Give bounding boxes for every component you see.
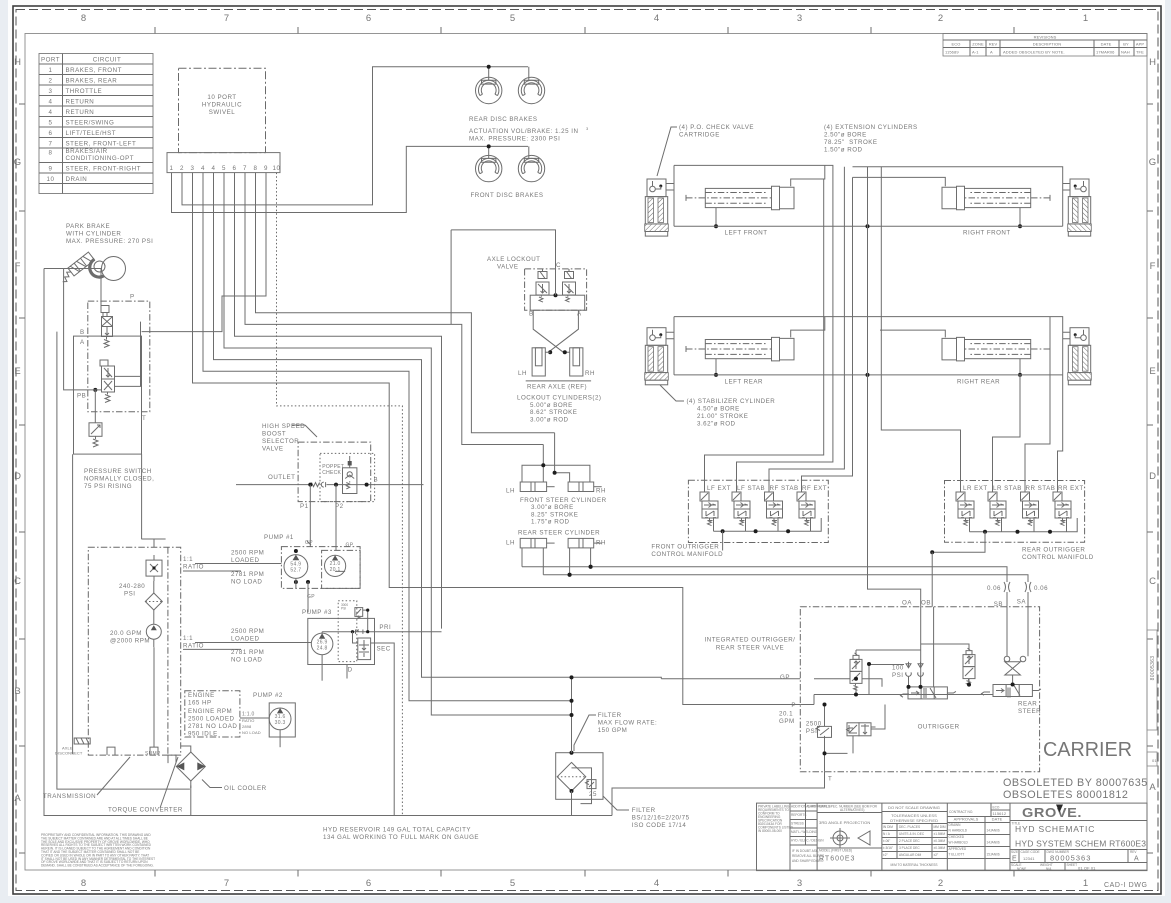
svg-text:ZONE: ZONE: [972, 42, 984, 47]
svg-text:±0.3MM: ±0.3MM: [934, 839, 946, 843]
svg-text:OIL COOLER: OIL COOLER: [224, 785, 267, 792]
svg-text:OUTLET: OUTLET: [268, 474, 295, 481]
svg-text:DEMAND. SHALL BE CONSTRUED AS: DEMAND. SHALL BE CONSTRUED AS ACCEPTANCE…: [41, 864, 154, 868]
svg-text:P1: P1: [300, 503, 309, 510]
svg-text:3: 3: [49, 88, 53, 95]
svg-text:17MAR06: 17MAR06: [1096, 50, 1115, 55]
svg-text:1:1: 1:1: [183, 635, 193, 642]
svg-text:4: 4: [654, 878, 660, 889]
svg-text:ISO CODE 17/14: ISO CODE 17/14: [632, 822, 687, 829]
contract / eco / approvals column: [947, 803, 1010, 871]
svg-text:80005363: 80005363: [1050, 854, 1091, 863]
SA long wire: [543, 575, 1028, 581]
svg-text:±2°: ±2°: [883, 853, 889, 857]
svg-text:C: C: [556, 262, 561, 269]
integrated outrigger / rear steer valve box: [705, 599, 1040, 783]
rear steer cylinder: [506, 530, 606, 577]
svg-text:PB: PB: [77, 393, 86, 400]
svg-text:DESCRIPTION: DESCRIPTION: [1033, 42, 1061, 47]
svg-text:RETURN: RETURN: [66, 99, 95, 106]
(4) po check valve cartridge label: [657, 124, 754, 176]
svg-text:LF EXT: LF EXT: [707, 485, 731, 492]
front disc brakes: [471, 146, 545, 199]
svg-text:REPORTS: REPORTS: [791, 813, 806, 817]
svg-text:SA: SA: [1017, 599, 1027, 606]
svg-text:GP: GP: [780, 674, 790, 681]
svg-text:BS/12/16=2/20/75: BS/12/16=2/20/75: [632, 815, 690, 822]
svg-text:1: 1: [49, 67, 53, 74]
transmission check valve: [146, 555, 162, 581]
svg-text:CARRIER: CARRIER: [1043, 739, 1132, 761]
LF STAB valve: [732, 492, 750, 526]
svg-text:SB: SB: [994, 601, 1003, 608]
grove logo cell: [1010, 805, 1147, 821]
svg-text:ALTERNATIVES): ALTERNATIVES): [840, 808, 865, 812]
svg-text:DATE: DATE: [808, 805, 816, 809]
svg-text:7: 7: [243, 165, 247, 172]
svg-text:G: G: [1149, 157, 1157, 168]
svg-text:0.06: 0.06: [1034, 585, 1048, 592]
title cell: [1012, 822, 1147, 849]
inline check symbol: [312, 482, 326, 487]
svg-text:LEFT FRONT: LEFT FRONT: [725, 230, 768, 237]
svg-text:AXLE LOCKOUT: AXLE LOCKOUT: [487, 256, 540, 263]
svg-text:M/M TO MATERIAL THICKNESS: M/M TO MATERIAL THICKNESS: [891, 863, 938, 867]
svg-text:REAR OUTRIGGER: REAR OUTRIGGER: [1022, 547, 1085, 554]
svg-text:25: 25: [589, 791, 597, 798]
svg-text:H: H: [1149, 57, 1157, 68]
rear disc brakes: [469, 67, 589, 143]
svg-text:NONE: NONE: [1017, 867, 1026, 871]
wire to LR EXT: [881, 167, 960, 492]
svg-text:±2°: ±2°: [934, 853, 940, 857]
valve internal: 2500 psi relief: [816, 726, 832, 738]
svg-text:LH: LH: [506, 540, 515, 547]
pressure switch symbol: [89, 423, 102, 447]
svg-text:SIZE: SIZE: [1011, 850, 1018, 854]
svg-text:6: 6: [366, 13, 372, 24]
material spec column: [817, 805, 882, 863]
left front stabilizer + cartridge: [645, 179, 669, 236]
manifold feed columns: [705, 167, 1063, 607]
svg-text:GPM: GPM: [779, 718, 795, 725]
svg-text:REAR: REAR: [1018, 701, 1037, 708]
svg-text:LOADED: LOADED: [231, 557, 259, 564]
valve internal: rear steer 4-way valve: [982, 685, 1042, 716]
svg-text:RR STAB: RR STAB: [1026, 485, 1056, 492]
svg-text:4: 4: [201, 165, 205, 172]
svg-text:BOOST: BOOST: [262, 431, 286, 438]
svg-text:RATIO: RATIO: [183, 564, 204, 571]
size cage dwg rev row: [1010, 850, 1147, 863]
lockout valve feed wire: [451, 230, 555, 325]
right front extension cylinder: [942, 186, 1050, 210]
svg-text:RETURN: RETURN: [66, 109, 95, 116]
svg-text:TORQUE CONVERTER: TORQUE CONVERTER: [108, 807, 183, 814]
SB long wire: [522, 567, 1007, 581]
svg-text:WITH CYLINDER: WITH CYLINDER: [66, 231, 121, 238]
svg-text:LOCKOUT CYLINDERS(2): LOCKOUT CYLINDERS(2): [517, 395, 602, 402]
svg-text:REVISIONS: REVISIONS: [1034, 35, 1057, 40]
svg-text:FRONT STEER CYLINDER: FRONT STEER CYLINDER: [520, 497, 607, 504]
svg-text:CIRCUIT: CIRCUIT: [93, 57, 122, 64]
wire to LF EXT: [705, 179, 824, 492]
engine box: [185, 691, 269, 738]
svg-text:CARTRIDGE: CARTRIDGE: [679, 132, 720, 139]
svg-text:E: E: [1012, 856, 1017, 863]
svg-text:950 IDLE: 950 IDLE: [188, 730, 218, 737]
svg-text:5: 5: [49, 120, 53, 127]
wire to RF STAB: [769, 167, 844, 492]
wire to RR EXT: [1058, 375, 1063, 492]
park brake cylinder: [58, 252, 125, 284]
svg-text:7: 7: [224, 13, 230, 24]
valve internal: unload valve pair: [847, 723, 876, 736]
svg-text:A: A: [1149, 782, 1156, 793]
svg-text:0.06: 0.06: [987, 585, 1001, 592]
svg-text:B: B: [80, 329, 85, 336]
svg-text:1:1: 1:1: [183, 556, 193, 563]
svg-text:9: 9: [264, 165, 268, 172]
svg-text:CAGE CODE: CAGE CODE: [1021, 850, 1040, 854]
svg-text:GP: GP: [346, 543, 354, 549]
svg-text:PSI: PSI: [806, 728, 817, 735]
right rear circuit wires: [880, 330, 1070, 375]
pump 2: [253, 692, 295, 747]
svg-text:ENGINE RPM: ENGINE RPM: [188, 708, 232, 715]
svg-text:REAR STEER VALVE: REAR STEER VALVE: [716, 645, 784, 652]
front steer cylinder: [506, 433, 607, 526]
svg-text:@2000 RPM: @2000 RPM: [110, 638, 150, 645]
svg-text:3RD ANGLE PROJECTION: 3RD ANGLE PROJECTION: [819, 820, 870, 825]
svg-text:E: E: [14, 366, 21, 377]
wire port2 to rear brakes: [182, 67, 528, 205]
oil cooler: [176, 746, 266, 792]
svg-text:LR EXT: LR EXT: [963, 485, 988, 492]
svg-text:ACTUATION VOL/BRAKE: 1.25 IN: ACTUATION VOL/BRAKE: 1.25 IN: [469, 128, 578, 135]
svg-text:FILTER: FILTER: [598, 712, 622, 719]
svg-text:2: 2: [938, 878, 944, 889]
svg-text:4: 4: [212, 165, 216, 172]
svg-text:PUMP #3: PUMP #3: [302, 609, 332, 616]
svg-text:P: P: [130, 294, 135, 301]
lockout solenoid valve right: [563, 269, 576, 302]
proprietary note block: [41, 833, 155, 868]
svg-text:LOADED: LOADED: [231, 636, 259, 643]
svg-text:DO NOT SCALE DRAWING: DO NOT SCALE DRAWING: [888, 805, 940, 810]
svg-text:DISCONNECT: DISCONNECT: [55, 751, 83, 756]
svg-text:N / A: N / A: [883, 832, 891, 836]
drain dotted wire port10: [277, 173, 403, 816]
svg-text:6: 6: [233, 165, 237, 172]
RF STAB valve: [765, 492, 783, 526]
svg-text:LF STAB: LF STAB: [737, 485, 765, 492]
svg-text:BRAKES, REAR: BRAKES, REAR: [66, 78, 118, 85]
svg-text:VALVE: VALVE: [262, 446, 284, 453]
svg-text:THROTTLE: THROTTLE: [66, 88, 103, 95]
svg-text:4: 4: [654, 13, 660, 24]
title block frame: [757, 803, 1148, 871]
orifice SA: [1025, 581, 1048, 607]
svg-text:NO LOAD: NO LOAD: [231, 657, 262, 664]
svg-text:RT600E3: RT600E3: [819, 856, 855, 863]
svg-text:F: F: [1150, 261, 1157, 272]
svg-text:4: 4: [49, 99, 53, 106]
svg-text:30.3: 30.3: [275, 720, 286, 726]
svg-text:3 PLACE DEC: 3 PLACE DEC: [899, 846, 920, 850]
svg-text:RIGHT FRONT: RIGHT FRONT: [963, 230, 1011, 237]
svg-text:T: T: [142, 415, 146, 422]
svg-text:E: E: [1149, 366, 1156, 377]
svg-text:CHECKED: CHECKED: [949, 835, 965, 839]
svg-text:APPROVED: APPROVED: [949, 847, 967, 851]
svg-text:REAR AXLE (REF): REAR AXLE (REF): [527, 383, 587, 390]
pump 1: [264, 534, 360, 612]
svg-text:20.0 GPM: 20.0 GPM: [110, 630, 142, 637]
svg-text:B: B: [374, 477, 379, 484]
valve internal: right pilot solenoid valve: [963, 648, 975, 685]
private labelling tiny text: [758, 805, 794, 834]
svg-text:D: D: [348, 667, 353, 674]
svg-text:IN DIM: IN DIM: [883, 825, 893, 829]
pump 3: [302, 601, 442, 816]
additional approvals column: [790, 803, 830, 863]
svg-text:FILTER: FILTER: [632, 807, 656, 814]
svg-text:MAX. PRESSURE: 2300 PSI: MAX. PRESSURE: 2300 PSI: [469, 136, 560, 143]
lockout solenoid valve left: [536, 269, 549, 302]
svg-text:01: 01: [1152, 758, 1157, 763]
svg-text:CAD-I DWG: CAD-I DWG: [1104, 882, 1148, 889]
svg-text:RH: RH: [585, 370, 595, 377]
svg-text:LIFT/TELE/HST: LIFT/TELE/HST: [66, 130, 117, 137]
svg-text:1.50"ø ROD: 1.50"ø ROD: [824, 147, 863, 154]
front steer wires: [543, 433, 554, 473]
svg-text:OUTRIGGER: OUTRIGGER: [918, 724, 960, 731]
svg-text:B: B: [14, 686, 21, 697]
svg-text:3: 3: [797, 13, 803, 24]
svg-text:4.50"ø BORE: 4.50"ø BORE: [697, 406, 740, 413]
svg-text:1: 1: [1083, 878, 1089, 889]
svg-text:14JAN06: 14JAN06: [987, 841, 1000, 845]
front manifold common wires: [714, 518, 822, 531]
svg-text:PORT: PORT: [41, 57, 60, 64]
svg-text:A-1: A-1: [972, 50, 979, 55]
svg-text:APP: APP: [1136, 42, 1145, 47]
svg-text:C: C: [14, 576, 22, 587]
left rear circuit wires: [666, 317, 825, 375]
10 port hydraulic swivel: [167, 68, 280, 172]
svg-text:(4) EXTENSION CYLINDERS: (4) EXTENSION CYLINDERS: [824, 124, 918, 131]
svg-text:C: C: [1149, 576, 1157, 587]
svg-text:GROVE.: GROVE.: [1022, 805, 1082, 820]
axle disconnect: [55, 738, 90, 756]
svg-text:APPROVALS: APPROVALS: [954, 817, 979, 822]
svg-text:±0.3MM: ±0.3MM: [934, 846, 946, 850]
svg-text:5: 5: [222, 165, 226, 172]
svg-text:D: D: [1149, 471, 1157, 482]
front outrigger control manifold box: [688, 480, 828, 542]
transmission pump circle: [146, 624, 161, 647]
right rear stabilizer + cartridge: [1068, 328, 1092, 385]
svg-text:OBSOLETES 80001812: OBSOLETES 80001812: [1003, 789, 1128, 801]
svg-text:OBSOLETED BY 80007635: OBSOLETED BY 80007635: [1003, 777, 1148, 789]
svg-text:DATE: DATE: [1101, 42, 1112, 47]
svg-text:HIGH SPEED: HIGH SPEED: [262, 423, 305, 430]
svg-text:4: 4: [49, 109, 53, 116]
svg-text:DEC. PLACES: DEC. PLACES: [899, 825, 920, 829]
sump outline: [107, 747, 176, 763]
svg-text:GP: GP: [305, 540, 313, 546]
wire to RR STAB: [1025, 317, 1050, 492]
svg-text:6: 6: [366, 878, 372, 889]
svg-text:20.1: 20.1: [779, 711, 793, 718]
svg-text:3.00"ø BORE: 3.00"ø BORE: [531, 504, 574, 511]
rear outrigger control manifold box: [945, 481, 1085, 543]
svg-text:2500 RPM: 2500 RPM: [231, 550, 264, 557]
svg-text:PUMP #1: PUMP #1: [264, 534, 294, 541]
valve internal wires: [800, 607, 1014, 772]
svg-text:STEER, FRONT-LEFT: STEER, FRONT-LEFT: [66, 141, 137, 148]
svg-text:RF EXT: RF EXT: [802, 485, 827, 492]
svg-text:1:1.0: 1:1.0: [242, 712, 255, 718]
svg-text:FRONT OUTRIGGER: FRONT OUTRIGGER: [651, 544, 719, 551]
rear manifold exit wire: [932, 532, 985, 553]
right rear extension cylinder: [942, 337, 1050, 361]
svg-text:SUMP: SUMP: [145, 751, 161, 757]
wire port1 to front brakes: [172, 146, 529, 212]
rear manifold common wires: [970, 518, 1078, 532]
svg-text:H: H: [14, 57, 22, 68]
svg-text:8: 8: [81, 878, 87, 889]
svg-text:SELECTOR: SELECTOR: [262, 438, 299, 445]
svg-text:N HARBOLD: N HARBOLD: [949, 829, 968, 833]
svg-text:A: A: [990, 50, 993, 55]
svg-text:SHEET: SHEET: [1067, 863, 1078, 867]
svg-text:20.1: 20.1: [330, 567, 341, 573]
svg-text:N/A: N/A: [1046, 867, 1052, 871]
svg-text:2781 NO LOAD: 2781 NO LOAD: [188, 723, 237, 730]
lockout cylinders: [517, 310, 602, 423]
svg-text:G: G: [14, 157, 22, 168]
svg-text:165 HP: 165 HP: [188, 700, 212, 707]
svg-text:A: A: [14, 793, 21, 804]
svg-text:8: 8: [49, 150, 53, 157]
stabilizer cylinder label: [660, 385, 775, 428]
boost valve wires: [236, 483, 424, 551]
svg-text:ADDED OBSOLETED BY NOTE.: ADDED OBSOLETED BY NOTE.: [1003, 50, 1065, 55]
svg-text:CONDITIONING-OPT: CONDITIONING-OPT: [66, 155, 135, 162]
scale weight sheet row: [1011, 863, 1096, 872]
svg-text:MAT'L / WELDING: MAT'L / WELDING: [791, 830, 818, 834]
svg-text:W HARBOLD: W HARBOLD: [949, 841, 969, 845]
axle lockout valve: [487, 256, 587, 318]
svg-text:±1.5MM: ±1.5MM: [934, 832, 946, 836]
svg-text:2.50"ø BORE: 2.50"ø BORE: [824, 132, 867, 139]
svg-text:10: 10: [273, 165, 281, 172]
svg-text:PSI: PSI: [341, 607, 346, 611]
svg-text:PRI: PRI: [379, 624, 391, 631]
svg-text:MAX FLOW RATE:: MAX FLOW RATE:: [598, 720, 657, 727]
svg-text:OB: OB: [921, 600, 931, 607]
svg-text:REAR STEER CYLINDER: REAR STEER CYLINDER: [518, 530, 600, 537]
svg-text:REV: REV: [989, 42, 998, 47]
zone letters left: [14, 57, 22, 804]
svg-text:9: 9: [49, 166, 53, 173]
svg-text:2: 2: [180, 165, 184, 172]
svg-text:5.00"ø BORE: 5.00"ø BORE: [530, 402, 573, 409]
zone numbers top: [81, 13, 1089, 24]
svg-text:CONTROL MANIFOLD: CONTROL MANIFOLD: [1022, 554, 1094, 561]
svg-text:RATIO: RATIO: [183, 643, 204, 650]
LR EXT valve: [956, 492, 974, 526]
svg-text:LEFT REAR: LEFT REAR: [725, 379, 763, 386]
svg-text:FRONT DISC BRAKES: FRONT DISC BRAKES: [471, 192, 544, 199]
svg-text:RIGHT REAR: RIGHT REAR: [957, 379, 1000, 386]
svg-text:RR EXT: RR EXT: [1058, 485, 1084, 492]
svg-text:UNITS & IN. DEC: UNITS & IN. DEC: [899, 832, 925, 836]
svg-text:(4) P.O. CHECK VALVE: (4) P.O. CHECK VALVE: [679, 124, 754, 131]
svg-text:2500 LOADED: 2500 LOADED: [188, 716, 234, 723]
svg-text:2 PLACE DEC: 2 PLACE DEC: [899, 839, 920, 843]
svg-text:±.06": ±.06": [883, 839, 890, 843]
svg-text:2: 2: [938, 13, 944, 24]
svg-text:DRAWN: DRAWN: [949, 823, 962, 827]
svg-text:TRANSMISSION: TRANSMISSION: [43, 793, 96, 800]
svg-text:T: T: [828, 776, 832, 783]
svg-text:115612: 115612: [993, 811, 1007, 816]
projection symbol: [833, 831, 847, 845]
svg-text:VALVE: VALVE: [497, 264, 519, 271]
OB column: [931, 552, 933, 607]
(4) extension cylinders label: [824, 124, 918, 154]
svg-text:NO LOAD: NO LOAD: [231, 579, 262, 586]
filter: [556, 675, 690, 829]
svg-text:NO LOAD: NO LOAD: [242, 730, 261, 735]
svg-text:MM DIM: MM DIM: [934, 825, 946, 829]
svg-text:6: 6: [49, 130, 53, 137]
rear cylinder bottom bus: [674, 374, 1063, 376]
svg-text:OA: OA: [902, 600, 912, 607]
front cylinder bottom bus: [674, 225, 1063, 227]
front manifold exit wire: [722, 531, 724, 550]
svg-text:80005363: 80005363: [1150, 656, 1156, 681]
svg-text:D: D: [14, 471, 22, 482]
svg-text:2: 2: [49, 78, 53, 85]
svg-text:STEER, FRONT-RIGHT: STEER, FRONT-RIGHT: [66, 166, 141, 173]
pressure switch solid box: [74, 336, 142, 454]
svg-text:TFE: TFE: [1136, 50, 1144, 55]
svg-text:CONTROL MANIFOLD: CONTROL MANIFOLD: [651, 551, 723, 558]
right front stabilizer + cartridge: [1068, 179, 1092, 236]
svg-text:3: 3: [797, 878, 803, 889]
svg-text:24.8: 24.8: [317, 645, 328, 651]
wire to LF STAB: [737, 226, 833, 492]
svg-text:SWIVEL: SWIVEL: [209, 109, 235, 116]
RF EXT valve: [797, 492, 815, 526]
svg-text:2898: 2898: [242, 724, 252, 729]
svg-text:HYD SYSTEM SCHEM RT600E3: HYD SYSTEM SCHEM RT600E3: [1015, 839, 1146, 849]
wire to LR STAB: [993, 375, 1021, 492]
svg-text:21.00" STROKE: 21.00" STROKE: [697, 413, 748, 420]
svg-text:OTHERWISE SPECIFIED: OTHERWISE SPECIFIED: [890, 818, 938, 823]
svg-text:STRESS: STRESS: [791, 822, 804, 826]
rear steer wires: [522, 548, 591, 575]
svg-text:PSI: PSI: [124, 591, 135, 598]
svg-text:IN 80000-08-000: IN 80000-08-000: [758, 829, 782, 833]
svg-text:7: 7: [224, 878, 230, 889]
svg-text:HYD / ELEC / DESIGN: HYD / ELEC / DESIGN: [791, 839, 824, 843]
svg-text:HYDRAULIC: HYDRAULIC: [202, 102, 242, 109]
